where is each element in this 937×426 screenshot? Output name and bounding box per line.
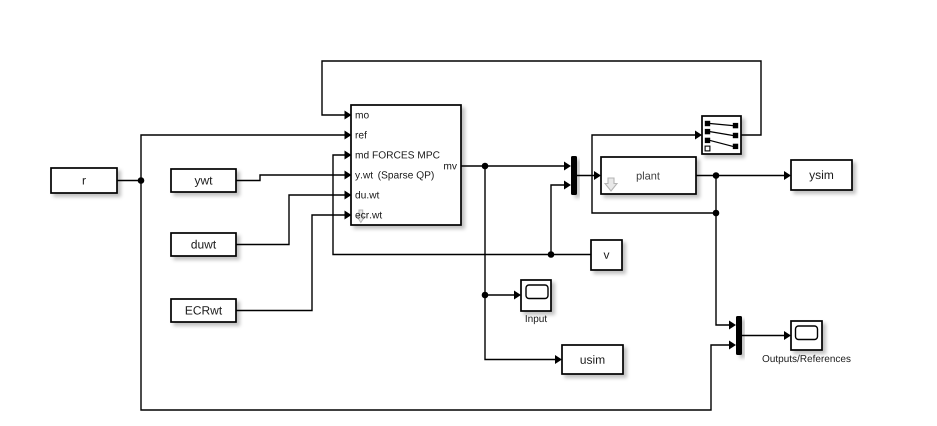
label ecr.wt (pin) [355,212,382,219]
wire: ECRwt to ecr.wt input of U1 [236,215,346,311]
scope block Outputs/References [791,321,822,350]
label (Sparse QP) [378,171,433,181]
arrowhead: Outputs/References scope input [784,331,791,340]
wire: ywt to y.wt input of U1 [236,175,346,181]
wire: junction down around bottom to Mux2 input 2 [141,181,731,411]
selector icon: connecting lines [710,124,733,126]
wire: v branch up to Mux1 input 2 [551,185,566,255]
wire: plant output to ysim [696,175,786,177]
selector block [702,116,741,154]
arrowhead: plant input [594,171,601,180]
label Input [526,315,547,324]
wire: Mux2 output to Outputs/References scope [742,335,786,337]
wire: feedback left and up to selector input [592,135,716,213]
node: junction at Input scope branch [482,292,489,299]
label mv (pin) [444,164,457,169]
Mux2 (outputs mux) [736,316,742,355]
scope block Input [521,280,551,311]
wire: r output to junction [117,180,141,182]
label mo (pin) [356,113,369,119]
arrowhead: usim input [555,355,562,364]
arrowhead: mo port [345,111,352,120]
block ywt [171,169,236,192]
label Outputs/References [763,355,851,364]
block v (inport, mirrored) [591,240,622,270]
arrowhead: Mux2 input 2 [729,341,736,350]
selector icon: right output squares [733,123,738,128]
arrowhead: Mux1 input 2 [564,181,571,190]
scope icon screen [796,326,818,340]
selector icon: open square [705,146,710,151]
label y.wt (pin) [355,172,373,181]
label md (pin) [356,151,369,158]
arrowhead: Mux2 input 1 [729,321,736,330]
arrowhead: Mux1 input 1 [564,162,571,171]
scope icon screen [526,285,548,299]
block duwt [171,233,236,256]
wire: Mux1 output to plant input [577,175,596,177]
wire: mv output of U1 to Mux1 input 1 [461,165,566,167]
arrowhead: md port [345,151,352,160]
block U1 FORCES MPC controller [351,105,461,225]
arrowhead: selector input [695,131,702,140]
node: junction at feedback branch [713,210,720,217]
wire: mv branch down to Input scope [485,166,516,295]
block ysim (outport) [791,160,852,190]
wire: plant output branch down to Mux2 input 1 [716,176,731,326]
badge: gray down-arrow on plant [605,178,617,191]
block plant [601,157,696,194]
node: junction on v signal [548,251,555,258]
arrowhead: Input scope input [514,291,521,300]
label FORCES MPC [373,151,440,158]
block r (reference inport) [51,168,117,193]
badge: gray down-arrow on U1 [357,210,365,223]
label ref (pin) [356,131,367,138]
wire: v output left and up to md input of U1 [333,155,591,255]
selector icon: left input squares [705,121,710,126]
wire: junction up to ref input of U1 [141,135,346,181]
wire: duwt to du.wt input of U1 [236,195,346,245]
arrowhead: ysim input [784,171,791,180]
wire: mv branch down to usim [485,295,557,360]
Mux1 (plant input mux) [571,156,577,195]
label du.wt (pin) [355,191,379,198]
node: junction at plant output [713,172,720,179]
arrowhead: y.wt port [345,171,352,180]
node: junction at mv output [482,163,489,170]
block usim (outport) [562,345,623,374]
arrowhead: du.wt port [345,191,352,200]
node: junction at r output [138,177,145,184]
arrowhead: ref port [345,131,352,140]
block ECRwt [171,299,236,322]
wire: selector output around top to mo input of U1 [322,61,761,135]
arrowhead: ecr.wt port [345,211,352,220]
